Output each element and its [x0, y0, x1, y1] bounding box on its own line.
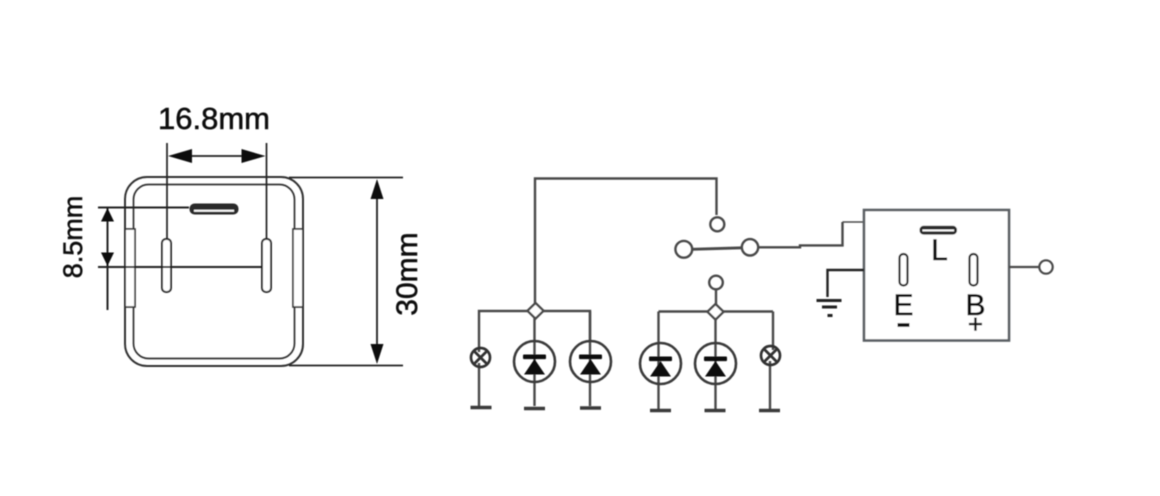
svg-text:+: +: [968, 309, 983, 339]
svg-text:E: E: [893, 289, 913, 322]
svg-text:L: L: [931, 234, 948, 267]
svg-text:8.5mm: 8.5mm: [58, 196, 88, 279]
svg-text:30mm: 30mm: [391, 232, 424, 315]
svg-text:16.8mm: 16.8mm: [158, 101, 270, 136]
